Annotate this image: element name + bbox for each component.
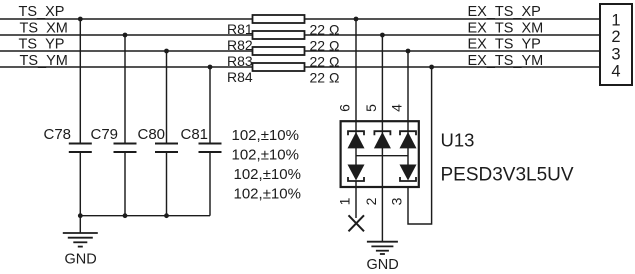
svg-text:TS_XP: TS_XP: [19, 4, 65, 20]
svg-text:TS_XM: TS_XM: [20, 21, 68, 37]
no-connect X on pin1: [349, 215, 365, 231]
svg-text:C81: C81: [181, 126, 209, 143]
svg-text:5: 5: [363, 104, 379, 112]
capacitor C79 bottom lead wire: [124, 152, 126, 216]
wire net TS_YM/EX_TS_YM horizontal: [0, 66, 600, 68]
svg-text:PESD3V3L5UV: PESD3V3L5UV: [441, 165, 574, 186]
junction dot wire4/C81: [208, 65, 213, 70]
svg-text:6: 6: [337, 104, 353, 112]
capacitor C78 plates: [69, 144, 92, 153]
diode D-top-2 (pin5 column, cathode up): [374, 131, 391, 148]
svg-text:102,±10%: 102,±10%: [232, 127, 299, 144]
svg-text:102,±10%: 102,±10%: [234, 186, 301, 203]
capacitor C81 bottom lead wire: [209, 152, 211, 216]
svg-text:EX_TS_XP: EX_TS_XP: [468, 4, 541, 20]
svg-text:C80: C80: [138, 126, 166, 143]
ground symbol left stem: [79, 216, 81, 233]
svg-text:EX_TS_XM: EX_TS_XM: [468, 21, 544, 37]
resistor R81 body: [253, 15, 305, 23]
svg-text:22 Ω: 22 Ω: [310, 22, 340, 38]
svg-text:3: 3: [611, 45, 620, 63]
svg-text:1: 1: [337, 197, 353, 205]
svg-text:2: 2: [363, 197, 379, 205]
wire U13 pin1 stub: [355, 181, 357, 218]
connector J body: [600, 4, 632, 85]
svg-text:22 Ω: 22 Ω: [310, 70, 340, 86]
junction dot wire1/C78: [78, 17, 83, 22]
ground symbol middle bars: [367, 242, 398, 254]
capacitor C81 plates: [199, 144, 222, 153]
diode D-bot-3 (pin3 column, cathode down): [400, 165, 417, 182]
wire internal bus of U13: [355, 131, 357, 165]
junction dot wire1/U13 pin6: [354, 17, 359, 22]
capacitor C81 top lead wire: [209, 67, 211, 144]
svg-text:4: 4: [611, 62, 620, 80]
wire U13 pin5 vertical: [381, 35, 383, 131]
resistor R84 body: [253, 63, 305, 71]
svg-text:22 Ω: 22 Ω: [310, 54, 340, 70]
capacitor C80 top lead wire: [166, 51, 168, 144]
resistor R83 body: [253, 47, 305, 55]
wire U13 pin6 vertical: [355, 19, 357, 131]
resistor R82 body: [253, 31, 305, 39]
svg-text:1: 1: [611, 11, 620, 29]
svg-text:EX_TS_YP: EX_TS_YP: [468, 37, 541, 53]
wire net TS_XP/EX_TS_XP horizontal: [0, 18, 600, 20]
svg-text:22 Ω: 22 Ω: [310, 38, 340, 54]
wire U13 pin3 to net4 riser: [408, 67, 432, 224]
svg-text:C79: C79: [91, 126, 119, 143]
diode D-bot-1 (pin1 column, cathode down): [348, 165, 365, 182]
svg-text:R84: R84: [227, 69, 253, 85]
junction dot bus/C79: [123, 213, 128, 218]
junction dot bus/C78: [78, 213, 83, 218]
capacitor C78 top lead wire: [79, 19, 81, 144]
capacitor C80 plates: [155, 144, 178, 153]
wire ground bus under capacitors: [80, 215, 210, 217]
diode D-top-1 (pin6 column, cathode up): [348, 131, 365, 148]
wire U13 pin4 vertical: [407, 51, 409, 131]
capacitor C79 top lead wire: [124, 35, 126, 144]
svg-text:3: 3: [389, 197, 405, 205]
junction dot wire3/U13 pin4: [406, 49, 411, 54]
junction dot wire2/C79: [123, 33, 128, 38]
svg-text:EX_TS_YM: EX_TS_YM: [468, 53, 544, 69]
op-amp U13 body box: [341, 121, 419, 187]
svg-text:4: 4: [389, 104, 405, 112]
svg-text:102,±10%: 102,±10%: [232, 147, 299, 164]
capacitor C80 bottom lead wire: [166, 152, 168, 216]
svg-text:102,±10%: 102,±10%: [234, 166, 301, 183]
svg-text:TS_YM: TS_YM: [20, 53, 68, 69]
svg-text:U13: U13: [441, 130, 475, 151]
junction dot wire2/U13 pin5: [380, 33, 385, 38]
capacitor C78 bottom lead wire: [79, 152, 81, 216]
junction dot wire4/U13 pin3 riser: [429, 65, 434, 70]
svg-text:R83: R83: [227, 53, 253, 69]
ground symbol left bars: [63, 233, 98, 247]
svg-text:C78: C78: [44, 126, 72, 143]
svg-text:TS_YP: TS_YP: [19, 37, 65, 53]
capacitor C79 plates: [114, 144, 137, 153]
wire net TS_XM/EX_TS_XM horizontal: [0, 34, 600, 36]
svg-text:R82: R82: [227, 37, 253, 53]
svg-text:GND: GND: [367, 257, 399, 273]
svg-text:R81: R81: [227, 21, 253, 37]
svg-text:GND: GND: [65, 252, 97, 268]
diode D-top-3 (pin4 column, cathode up): [400, 131, 417, 148]
svg-text:2: 2: [611, 28, 620, 46]
wire U13 pin2 to ground: [381, 187, 383, 242]
wire net TS_YP/EX_TS_YP horizontal: [0, 50, 600, 52]
junction dot wire3/C80: [164, 49, 169, 54]
junction dot bus/C80: [164, 213, 169, 218]
